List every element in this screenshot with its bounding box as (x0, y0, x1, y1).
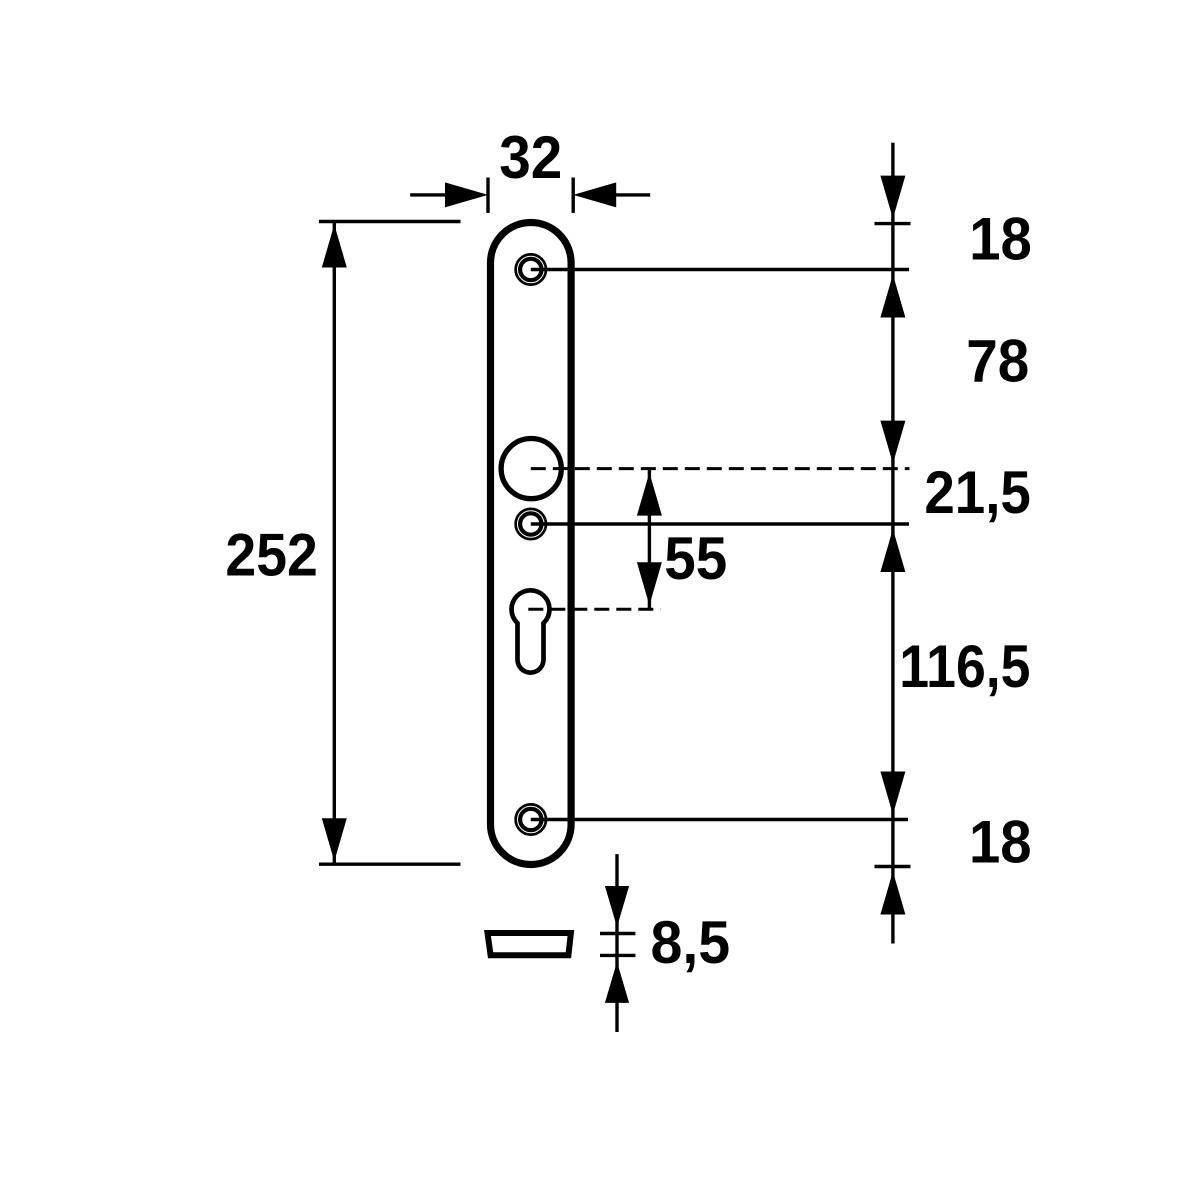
svg-text:116,5: 116,5 (899, 633, 1030, 700)
svg-text:21,5: 21,5 (924, 459, 1031, 526)
svg-text:32: 32 (499, 124, 562, 191)
svg-text:78: 78 (966, 327, 1029, 394)
svg-text:18: 18 (969, 809, 1032, 876)
svg-text:252: 252 (225, 522, 317, 589)
svg-text:18: 18 (969, 205, 1032, 272)
svg-text:55: 55 (664, 525, 727, 592)
svg-text:8,5: 8,5 (650, 909, 730, 976)
